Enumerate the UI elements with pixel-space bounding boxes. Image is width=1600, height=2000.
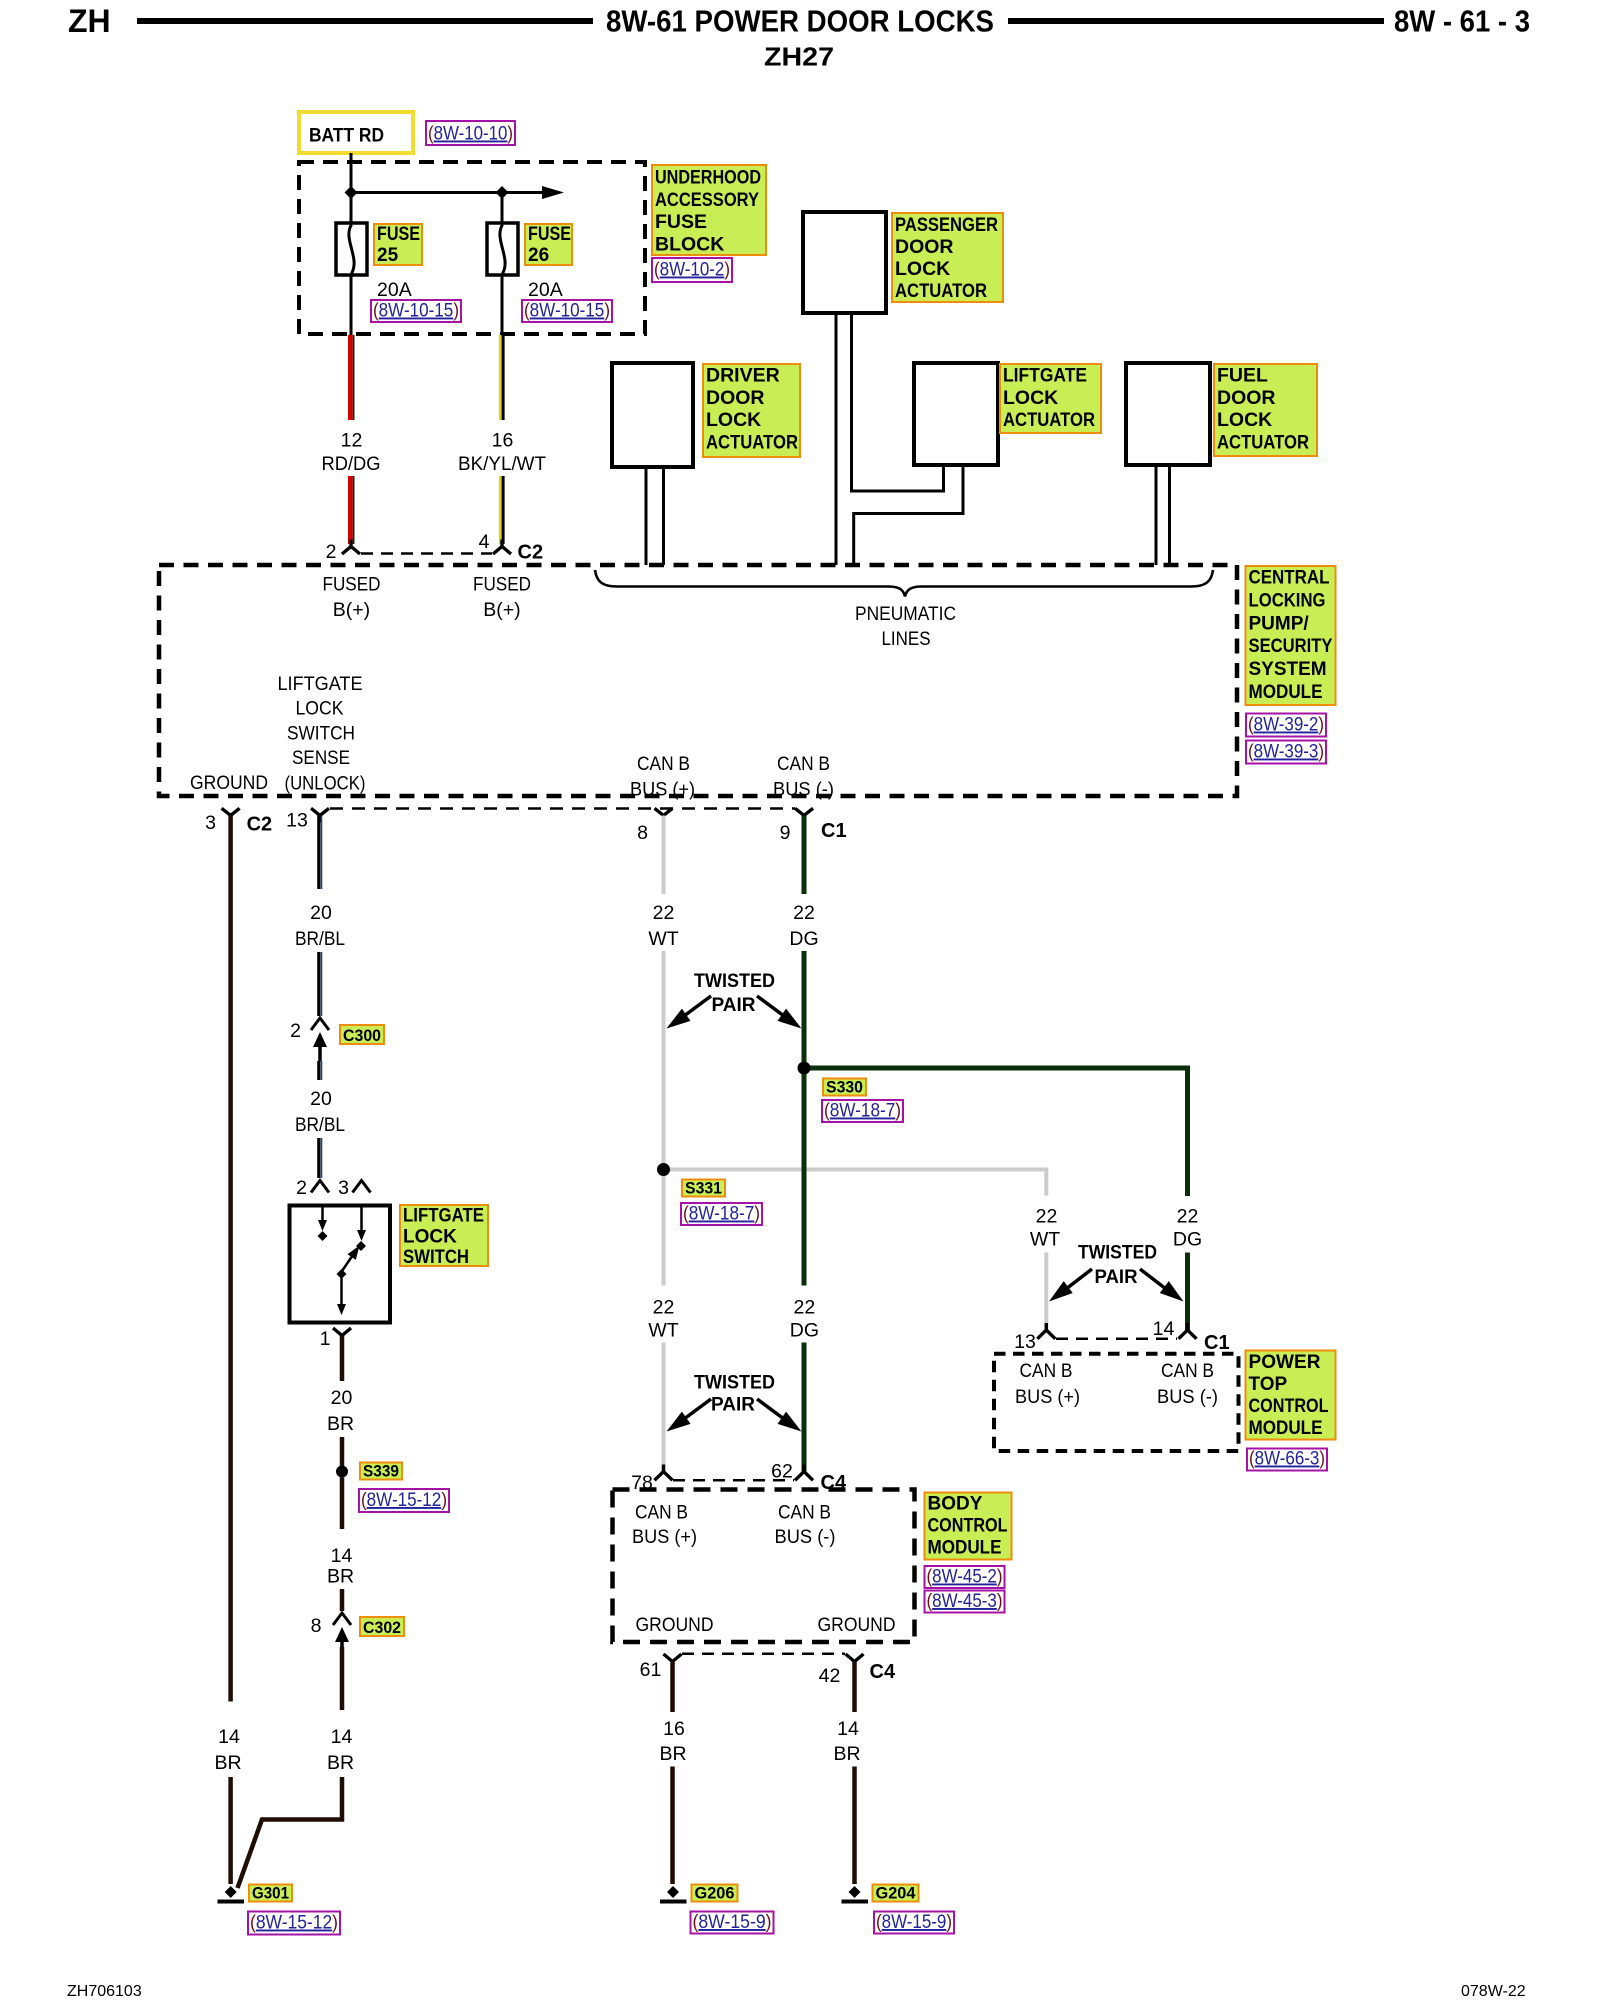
- connector C4 dashed link line (BCM bottom): [682, 1653, 845, 1656]
- ground G204 symbol: [849, 1886, 861, 1898]
- svg-text:GROUND: GROUND: [636, 1614, 714, 1636]
- label 8W-45-3: [925, 1591, 1005, 1613]
- label 8W-39-3: [1246, 741, 1326, 764]
- svg-text:(8W-39-3): (8W-39-3): [1248, 742, 1324, 763]
- svg-text:C300: C300: [343, 1027, 381, 1045]
- svg-text:FUSED: FUSED: [473, 574, 531, 596]
- svg-text:BUS (+): BUS (+): [1015, 1386, 1080, 1408]
- label 8W-10-2: [652, 258, 732, 282]
- splice S339 tag: [360, 1463, 402, 1480]
- svg-text:CAN B: CAN B: [635, 1502, 688, 1524]
- svg-text:1: 1: [320, 1328, 331, 1350]
- svg-text:BUS (-): BUS (-): [1157, 1386, 1218, 1408]
- svg-text:LOCK: LOCK: [1003, 387, 1058, 409]
- fuse 25: [336, 223, 367, 275]
- header rule left: [137, 18, 593, 24]
- svg-text:CAN B: CAN B: [777, 753, 830, 775]
- svg-text:C2: C2: [518, 542, 544, 564]
- svg-text:LIFTGATE: LIFTGATE: [403, 1206, 484, 1227]
- svg-text:BUS (+): BUS (+): [632, 1526, 697, 1548]
- wire 22 WT into power top module: [1044, 1253, 1048, 1331]
- svg-text:(8W-18-7): (8W-18-7): [824, 1101, 901, 1122]
- svg-text:ACTUATOR: ACTUATOR: [706, 431, 798, 453]
- svg-text:WT: WT: [1030, 1229, 1060, 1251]
- svg-text:3: 3: [205, 812, 216, 834]
- liftgate lock switch label: [400, 1205, 488, 1266]
- svg-text:BR: BR: [327, 1566, 354, 1588]
- svg-text:20: 20: [310, 1088, 332, 1110]
- wire 14 BR ground (pin 3) long segment: [228, 816, 233, 1702]
- BCM pin 42 fork: [846, 1654, 864, 1662]
- svg-text:PAIR: PAIR: [1095, 1266, 1138, 1288]
- svg-text:B(+): B(+): [333, 599, 370, 621]
- svg-text:MODULE: MODULE: [928, 1538, 1002, 1559]
- node battery feed junction: [345, 186, 358, 199]
- svg-text:BR/BL: BR/BL: [295, 928, 345, 950]
- splice S330 tag: [823, 1079, 866, 1096]
- svg-text:DG: DG: [789, 928, 818, 950]
- body control module label: [925, 1493, 1012, 1560]
- twisted pair arrow left (right): [1066, 1269, 1092, 1289]
- svg-text:BR: BR: [833, 1743, 860, 1765]
- svg-text:ZH27: ZH27: [764, 44, 834, 72]
- svg-text:LOCK: LOCK: [403, 1226, 457, 1247]
- battery feed box BATT RD: [299, 112, 413, 153]
- svg-text:FUSE: FUSE: [655, 211, 707, 233]
- connector dashed link line pins 13-8-9: [330, 807, 795, 810]
- liftgate lock actuator label: [1000, 364, 1101, 433]
- label 8W-10-15 (fuse 26): [522, 300, 612, 322]
- switch output to pin 1: [340, 1277, 343, 1308]
- wire battery feed into fuse block: [350, 153, 353, 223]
- svg-text:LOCK: LOCK: [296, 698, 344, 720]
- label 8W-66-3: [1247, 1449, 1327, 1471]
- wire 22 WT into BCM: [662, 1343, 666, 1472]
- connector C300 symbol, pin 2: [311, 1018, 329, 1030]
- svg-text:LIFTGATE: LIFTGATE: [1003, 365, 1087, 387]
- svg-text:FUSE: FUSE: [528, 224, 571, 245]
- wire 22 DG branch to power top module: [804, 1066, 1185, 1071]
- wire 20 BR/BL segment 3: [317, 1061, 320, 1080]
- wire 20 BR segment (switch pin 1): [340, 1336, 345, 1382]
- svg-text:(8W-15-9): (8W-15-9): [693, 1912, 772, 1933]
- svg-text:B(+): B(+): [483, 599, 520, 621]
- svg-text:BUS (-): BUS (-): [773, 779, 834, 801]
- svg-text:S331: S331: [685, 1180, 722, 1198]
- svg-text:25: 25: [377, 245, 399, 266]
- svg-text:LOCK: LOCK: [1217, 409, 1272, 431]
- wire 20 BR/BL upper segment (pin 13): [317, 816, 320, 890]
- svg-text:2: 2: [296, 1177, 307, 1199]
- svg-text:POWER: POWER: [1249, 1352, 1321, 1373]
- svg-text:BR: BR: [659, 1743, 686, 1765]
- svg-text:8: 8: [637, 822, 648, 844]
- svg-text:G206: G206: [695, 1885, 735, 1903]
- pneumatic line liftgate right to module: [854, 465, 963, 565]
- wire 22 DG long segment: [802, 951, 807, 1286]
- BCM pin 62 fork: [795, 1472, 813, 1481]
- label 8W-15-9 (G206): [691, 1912, 774, 1934]
- label 8W-18-7 (S330): [822, 1100, 903, 1122]
- svg-text:8: 8: [311, 1615, 322, 1637]
- svg-text:BK/YL/WT: BK/YL/WT: [458, 453, 546, 475]
- svg-text:WT: WT: [648, 1320, 678, 1342]
- svg-text:LOCK: LOCK: [895, 258, 950, 280]
- wire 20 BR/BL segment 4: [317, 1138, 320, 1178]
- pneumatic line driver right: [662, 467, 665, 565]
- svg-text:PAIR: PAIR: [712, 994, 756, 1016]
- passenger door lock actuator label: [892, 213, 1003, 302]
- BCM pin 78 fork: [655, 1472, 673, 1481]
- wire 14 BR below C302: [340, 1647, 345, 1710]
- title 8W-61 POWER DOOR LOCKS: [606, 4, 994, 39]
- label 8W-39-2: [1246, 714, 1326, 737]
- BCM pin 61 fork: [664, 1654, 682, 1662]
- wire bus to fuse 26 with arrow: [351, 191, 543, 194]
- wire 22 DG into BCM: [802, 1343, 807, 1472]
- switch contact from pin 2: [321, 1206, 324, 1225]
- svg-text:TOP: TOP: [1249, 1374, 1288, 1395]
- svg-text:(8W-10-2): (8W-10-2): [654, 260, 730, 281]
- label 8W-15-12 (G301): [248, 1912, 340, 1935]
- svg-text:TWISTED: TWISTED: [694, 1372, 775, 1394]
- svg-text:(8W-45-3): (8W-45-3): [927, 1591, 1003, 1612]
- svg-text:ACTUATOR: ACTUATOR: [1217, 431, 1309, 453]
- svg-text:ZH706103: ZH706103: [67, 1983, 142, 2000]
- svg-text:(8W-15-12): (8W-15-12): [361, 1490, 447, 1511]
- wire 14 BR segment above C302: [340, 1589, 345, 1611]
- underhood accessory fuse block (dashed): [299, 162, 645, 334]
- fuse 25 label: [374, 224, 422, 265]
- svg-text:20A: 20A: [528, 279, 563, 301]
- pin 2 connector fork: [342, 547, 360, 555]
- svg-text:S330: S330: [826, 1079, 863, 1097]
- body control module (dashed): [613, 1490, 915, 1643]
- ground G206 symbol: [667, 1886, 679, 1898]
- underhood accessory fuse block label: [652, 165, 766, 255]
- svg-text:DOOR: DOOR: [1217, 387, 1276, 409]
- svg-text:2: 2: [326, 541, 337, 563]
- svg-text:(UNLOCK): (UNLOCK): [285, 773, 366, 795]
- wire 16 BK/YL/WT lower segment: [499, 476, 502, 544]
- header rule right: [1008, 18, 1384, 24]
- splice S339: [336, 1466, 348, 1478]
- svg-text:LINES: LINES: [882, 628, 931, 650]
- pneumatic line driver left: [645, 467, 648, 565]
- svg-text:8W-61 POWER DOOR LOCKS: 8W-61 POWER DOOR LOCKS: [606, 4, 994, 39]
- svg-text:PNEUMATIC: PNEUMATIC: [855, 603, 956, 625]
- pneumatic line fuel left: [1155, 465, 1158, 565]
- label 8W-15-9 (G204): [874, 1912, 954, 1934]
- svg-text:DRIVER: DRIVER: [706, 365, 780, 387]
- svg-text:CENTRAL: CENTRAL: [1249, 568, 1330, 589]
- fuel door lock actuator label: [1214, 364, 1317, 456]
- central locking pump module label: [1246, 566, 1336, 705]
- wire 16 BR to ground G206: [670, 1767, 675, 1885]
- label 8W-10-10: [426, 121, 515, 145]
- fuse 26: [487, 223, 518, 275]
- svg-text:C1: C1: [821, 820, 847, 842]
- svg-text:LIFTGATE: LIFTGATE: [278, 673, 363, 695]
- svg-text:BR: BR: [327, 1413, 354, 1435]
- fuse 26 label: [525, 224, 572, 265]
- svg-text:BR/BL: BR/BL: [295, 1114, 345, 1136]
- svg-text:4: 4: [479, 531, 490, 553]
- svg-text:13: 13: [1014, 1331, 1036, 1353]
- svg-text:S339: S339: [363, 1463, 399, 1481]
- wire 14 BR segment (pin 42): [852, 1662, 857, 1713]
- page header: [68, 3, 111, 39]
- svg-text:SENSE: SENSE: [292, 747, 350, 769]
- svg-text:2: 2: [290, 1020, 301, 1042]
- twisted pair arrow left (lower): [684, 1399, 711, 1419]
- splice S331 tag: [682, 1180, 725, 1197]
- wire fuse 25 to pin 2 segment inside block: [350, 275, 353, 335]
- svg-text:SECURITY: SECURITY: [1249, 636, 1333, 657]
- connector C300 tag: [340, 1025, 384, 1044]
- svg-text:CAN B: CAN B: [1161, 1360, 1214, 1382]
- twisted pair arrow right (lower): [757, 1399, 784, 1419]
- svg-text:13: 13: [286, 810, 308, 832]
- wire 14 BR ground (pin 3) lower segment: [228, 1777, 233, 1884]
- svg-text:(8W-66-3): (8W-66-3): [1249, 1449, 1325, 1470]
- svg-text:(8W-39-2): (8W-39-2): [1248, 715, 1324, 736]
- switch contact from pin 3: [360, 1206, 363, 1235]
- svg-text:PUMP/: PUMP/: [1249, 613, 1310, 634]
- svg-text:CAN B: CAN B: [1020, 1360, 1073, 1382]
- connector C4 dashed link line (BCM top): [673, 1479, 794, 1482]
- svg-text:20: 20: [331, 1387, 353, 1409]
- ground G301 symbol: [225, 1886, 237, 1898]
- wire 14 BR to ground G204: [852, 1767, 857, 1885]
- svg-text:078W-22: 078W-22: [1461, 1983, 1526, 2000]
- svg-text:PAIR: PAIR: [711, 1394, 755, 1416]
- pin 4 connector fork: [493, 547, 511, 555]
- central locking pump / security system module (dashed): [159, 565, 1237, 796]
- svg-text:C1: C1: [1204, 1332, 1230, 1354]
- svg-text:SWITCH: SWITCH: [403, 1247, 469, 1268]
- svg-text:LOCK: LOCK: [706, 409, 761, 431]
- passenger door lock actuator: [803, 212, 886, 313]
- pin 3 fork and label: [222, 808, 240, 815]
- svg-text:BR: BR: [214, 1752, 241, 1774]
- connector C302 tag: [360, 1617, 404, 1636]
- svg-text:61: 61: [640, 1659, 662, 1681]
- svg-text:DOOR: DOOR: [895, 236, 954, 258]
- twisted pair arrow right (right): [1140, 1269, 1166, 1289]
- svg-text:DG: DG: [1173, 1229, 1202, 1251]
- svg-text:(8W-10-15): (8W-10-15): [373, 301, 459, 322]
- svg-text:FUSED: FUSED: [323, 574, 381, 596]
- svg-text:ACTUATOR: ACTUATOR: [1003, 409, 1095, 431]
- svg-text:GROUND: GROUND: [818, 1614, 896, 1636]
- ground G301 tag: [249, 1885, 292, 1902]
- svg-text:(8W-15-9): (8W-15-9): [876, 1912, 952, 1933]
- ground G204 tag: [873, 1885, 919, 1902]
- pin 1 fork: [333, 1328, 351, 1336]
- pneumatic lines brace: [595, 570, 1213, 597]
- svg-text:16: 16: [663, 1718, 685, 1740]
- pneumatic line passenger left: [835, 313, 838, 565]
- svg-text:14: 14: [331, 1545, 353, 1567]
- svg-text:8W - 61 - 3: 8W - 61 - 3: [1394, 4, 1530, 39]
- svg-text:UNDERHOOD: UNDERHOOD: [655, 167, 761, 189]
- liftgate lock actuator: [914, 363, 998, 465]
- svg-text:22: 22: [1177, 1206, 1199, 1228]
- svg-text:20A: 20A: [377, 279, 412, 301]
- svg-text:(8W-45-2): (8W-45-2): [927, 1567, 1003, 1588]
- pneumatic line fuel right: [1168, 465, 1171, 565]
- svg-text:DOOR: DOOR: [706, 387, 765, 409]
- connector C2 dashed link line: [361, 552, 492, 555]
- liftgate lock switch: [290, 1206, 391, 1323]
- svg-text:WT: WT: [648, 928, 678, 950]
- wire 22 DG into power top module: [1185, 1253, 1190, 1331]
- wire 22 WT long segment: [662, 951, 666, 1286]
- svg-text:BATT RD: BATT RD: [309, 125, 384, 147]
- svg-text:ACTUATOR: ACTUATOR: [895, 280, 987, 302]
- svg-text:MODULE: MODULE: [1249, 1418, 1323, 1439]
- svg-text:CONTROL: CONTROL: [1249, 1396, 1329, 1417]
- connector C302 symbol, pin 8: [333, 1613, 351, 1625]
- power top control module (dashed): [994, 1354, 1239, 1451]
- pin 9 fork and label: [795, 808, 813, 815]
- svg-text:FUEL: FUEL: [1217, 365, 1268, 387]
- svg-text:22: 22: [794, 1297, 816, 1319]
- svg-text:BUS (-): BUS (-): [775, 1526, 836, 1548]
- ground G206 tag: [692, 1885, 738, 1902]
- svg-text:(8W-10-10): (8W-10-10): [428, 124, 513, 145]
- svg-text:C2: C2: [247, 814, 273, 836]
- wire 20 BR segment 2: [340, 1437, 345, 1466]
- svg-text:14: 14: [1153, 1318, 1175, 1340]
- svg-text:CAN B: CAN B: [778, 1502, 831, 1524]
- label 8W-18-7 (S331): [681, 1203, 762, 1225]
- power top control module label: [1246, 1351, 1336, 1440]
- svg-text:(8W-10-15): (8W-10-15): [524, 301, 610, 322]
- switch lever: [342, 1249, 357, 1271]
- svg-text:42: 42: [819, 1665, 841, 1687]
- svg-text:ZH: ZH: [68, 3, 111, 39]
- node fuse 26 tap: [496, 186, 509, 199]
- splice S330: [798, 1062, 811, 1075]
- pneumatic line passenger right to liftgate: [852, 313, 944, 491]
- svg-text:C302: C302: [363, 1619, 401, 1637]
- svg-text:FUSE: FUSE: [377, 224, 420, 245]
- svg-text:22: 22: [793, 902, 815, 924]
- driver door lock actuator: [612, 363, 693, 467]
- wire 14 BR route to ground G301: [238, 1777, 343, 1888]
- label 8W-15-12 (S339): [359, 1489, 449, 1512]
- svg-text:RD/DG: RD/DG: [322, 453, 381, 475]
- svg-text:16: 16: [492, 430, 514, 452]
- svg-text:DG: DG: [790, 1320, 819, 1342]
- connector C1 dashed link line (power top): [1056, 1338, 1177, 1341]
- svg-text:(8W-15-12): (8W-15-12): [250, 1913, 338, 1934]
- wire fuse 26 to pin 4 segment inside block: [501, 193, 504, 224]
- svg-text:3: 3: [338, 1177, 349, 1199]
- wire 12 RD/DG upper segment: [348, 335, 353, 420]
- svg-text:20: 20: [310, 902, 332, 924]
- liftgate lock switch pin 2 fork: [311, 1181, 329, 1193]
- wire 16 BR segment (pin 61): [670, 1662, 675, 1713]
- svg-text:C4: C4: [870, 1661, 896, 1683]
- svg-text:SYSTEM: SYSTEM: [1249, 659, 1327, 680]
- svg-text:BLOCK: BLOCK: [655, 233, 724, 255]
- svg-text:22: 22: [653, 902, 675, 924]
- svg-text:SWITCH: SWITCH: [287, 723, 355, 745]
- wire 20 BR/BL segment 2: [317, 952, 320, 1016]
- svg-text:PASSENGER: PASSENGER: [895, 214, 998, 236]
- svg-text:LOCKING: LOCKING: [1249, 590, 1326, 611]
- wire 22 DG segment (pin 9): [802, 816, 807, 895]
- svg-text:9: 9: [780, 822, 791, 844]
- svg-text:22: 22: [653, 1297, 675, 1319]
- svg-text:ACCESSORY: ACCESSORY: [655, 189, 759, 211]
- power top pin 13 fork: [1037, 1330, 1055, 1339]
- svg-text:BR: BR: [327, 1752, 354, 1774]
- power top pin 14 fork: [1179, 1330, 1197, 1339]
- svg-text:BODY: BODY: [928, 1494, 983, 1515]
- twisted pair arrow left (upper): [684, 996, 711, 1016]
- svg-text:CONTROL: CONTROL: [928, 1516, 1008, 1537]
- wire 22 WT segment (pin 8): [662, 816, 666, 895]
- svg-text:CAN B: CAN B: [637, 753, 690, 775]
- fuel door lock actuator: [1126, 363, 1210, 465]
- svg-text:BUS (+): BUS (+): [630, 779, 695, 801]
- pin 13 fork and label: [311, 808, 329, 815]
- driver door lock actuator label: [703, 364, 800, 457]
- wire 14 BR segment below S339: [340, 1478, 345, 1530]
- splice S331: [657, 1163, 670, 1176]
- svg-text:14: 14: [331, 1726, 353, 1748]
- svg-text:26: 26: [528, 245, 549, 266]
- wire 12 RD/DG lower segment: [348, 476, 353, 544]
- svg-text:TWISTED: TWISTED: [694, 970, 775, 992]
- svg-text:14: 14: [837, 1718, 859, 1740]
- wire 22 WT branch to power top module: [664, 1168, 1045, 1172]
- svg-text:(8W-18-7): (8W-18-7): [683, 1204, 760, 1225]
- label 8W-45-2: [925, 1566, 1005, 1588]
- wire 16 BK/YL/WT upper segment: [499, 335, 502, 420]
- svg-text:TWISTED: TWISTED: [1078, 1242, 1157, 1264]
- svg-text:12: 12: [341, 430, 363, 452]
- svg-text:MODULE: MODULE: [1249, 682, 1323, 703]
- twisted pair arrow right (upper): [757, 996, 784, 1016]
- svg-text:22: 22: [1036, 1206, 1058, 1228]
- svg-text:G204: G204: [876, 1885, 917, 1903]
- svg-text:GROUND: GROUND: [190, 772, 268, 794]
- svg-text:14: 14: [218, 1726, 240, 1748]
- pin 8 fork and label: [655, 808, 673, 815]
- svg-text:G301: G301: [252, 1885, 289, 1903]
- label 8W-10-15 (fuse 25): [371, 300, 461, 322]
- liftgate lock switch pin 3 chevron: [353, 1181, 371, 1193]
